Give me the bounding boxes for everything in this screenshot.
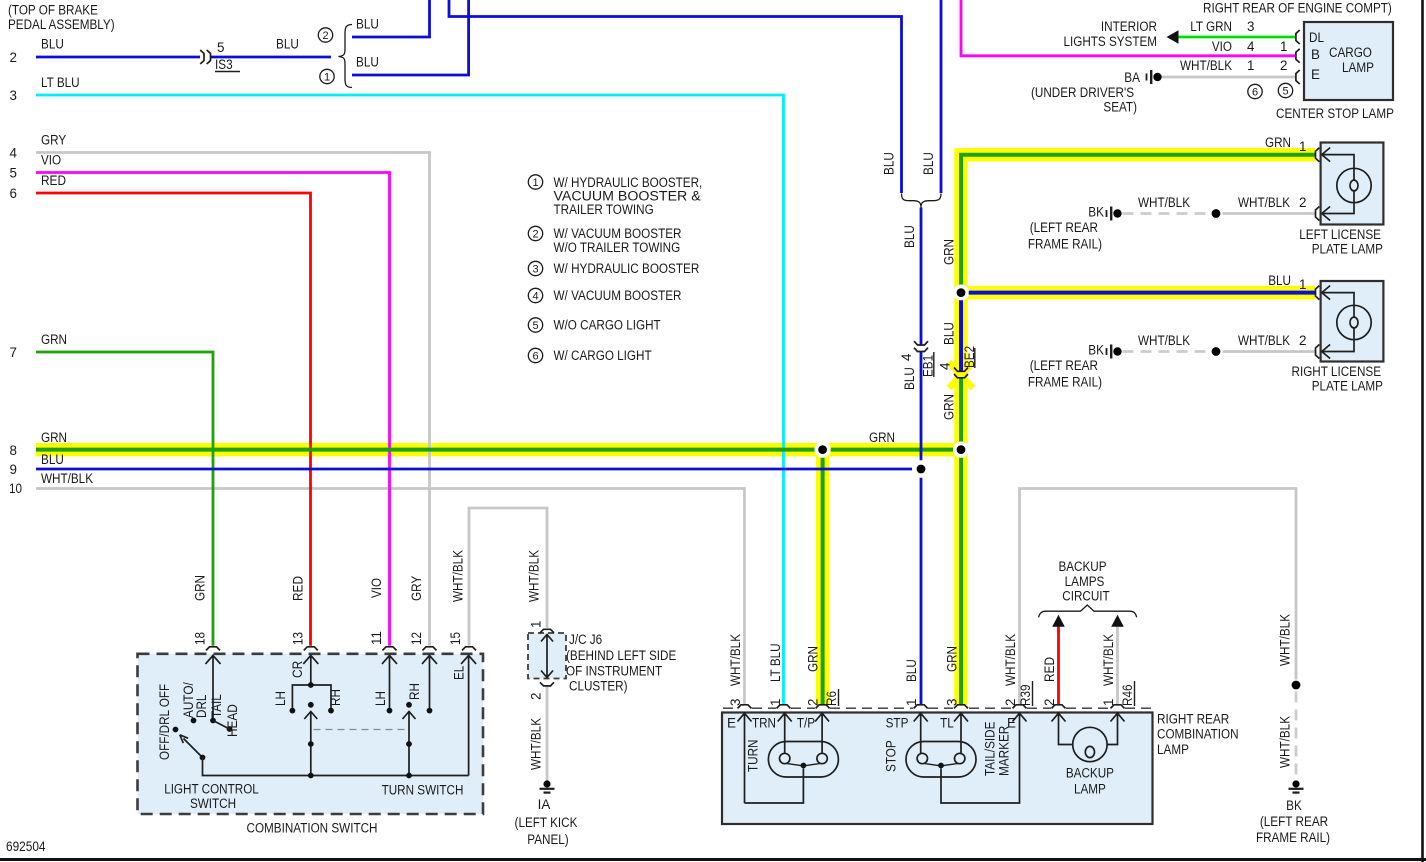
wire VIO vertical to cargo lamp B — [961, 0, 1296, 56]
svg-text:692504: 692504 — [6, 839, 46, 854]
svg-text:2: 2 — [1280, 58, 1287, 73]
note 6 — [528, 348, 651, 363]
svg-text:W/O TRAILER TOWING: W/O TRAILER TOWING — [554, 240, 681, 255]
svg-text:BLU: BLU — [356, 55, 379, 70]
pin cup left license 2 — [1316, 207, 1320, 221]
switch contact AUTO/DRL — [191, 718, 197, 724]
yellow highlight band line 8 GRN — [36, 443, 961, 457]
svg-text:WHT/BLK: WHT/BLK — [41, 471, 93, 486]
svg-text:EL: EL — [452, 666, 467, 680]
pin hump switch 15 — [462, 647, 476, 651]
switch contact OFF/DRL OFF — [173, 727, 179, 733]
switch bus node turn left — [308, 773, 314, 779]
svg-text:RIGHT LICENSE: RIGHT LICENSE — [1292, 364, 1382, 379]
svg-text:GRN: GRN — [41, 332, 67, 347]
svg-text:TAIL/SIDE: TAIL/SIDE — [983, 722, 998, 776]
svg-text:CLUSTER): CLUSTER) — [569, 679, 628, 694]
pin hump lamp backup 1 — [1111, 705, 1125, 709]
svg-text:SEAT): SEAT) — [1103, 100, 1137, 115]
brace split line2 — [339, 25, 353, 88]
svg-text:6: 6 — [1252, 87, 1258, 99]
switch arrow pin 15 — [461, 655, 476, 775]
svg-text:6: 6 — [10, 186, 17, 201]
switch lever turn left — [304, 712, 317, 776]
wire WHT/BLK net E2 to BK ground — [1020, 489, 1297, 705]
connector BE2 underline — [974, 348, 976, 368]
svg-text:3: 3 — [728, 699, 743, 706]
pin hump lamp E3 — [738, 705, 752, 709]
lamp arrow TRN — [778, 713, 792, 753]
pin hump lamp STP — [914, 705, 928, 709]
pin hump lamp E2 — [1013, 705, 1027, 709]
right license wire bulb to pin2 — [1322, 340, 1354, 352]
wire line 2 BLU IS3 to brace — [211, 56, 331, 59]
switch arrow pin 18 — [206, 655, 221, 718]
switch lever turn right — [403, 712, 416, 776]
svg-text:BLU: BLU — [942, 322, 957, 345]
pin hump lamp T/P — [816, 705, 830, 709]
right license bulb — [1337, 305, 1371, 339]
lamp arrow backup 2 — [1052, 713, 1073, 744]
svg-text:R39: R39 — [1018, 685, 1033, 707]
circled 2 at brace — [318, 28, 332, 42]
svg-text:VIO: VIO — [369, 578, 384, 598]
svg-text:PANEL): PANEL) — [527, 832, 568, 847]
right license arrow pin1 — [1322, 286, 1354, 340]
switch bus node turn right — [406, 773, 412, 779]
label R39 underline — [1032, 681, 1034, 706]
svg-text:OF INSTRUMENT: OF INSTRUMENT — [566, 664, 662, 679]
turn bulb stadium — [768, 742, 838, 778]
pin hump switch 18 — [206, 647, 220, 651]
connector IS3 cups — [200, 50, 210, 64]
svg-text:COMBINATION SWITCH: COMBINATION SWITCH — [247, 821, 378, 836]
svg-text:1: 1 — [1299, 277, 1306, 292]
wire RED backup lamp pin2 — [1057, 627, 1060, 705]
svg-text:1: 1 — [768, 699, 783, 706]
switch contact RH left — [328, 708, 334, 714]
svg-text:1: 1 — [1247, 58, 1254, 73]
svg-text:TRN: TRN — [752, 716, 776, 731]
svg-text:5: 5 — [1282, 86, 1288, 98]
right rear combination lamp box — [722, 713, 1153, 825]
svg-text:2: 2 — [1299, 195, 1306, 210]
right license plate lamp box — [1321, 281, 1384, 362]
pin cup right license 2 — [1316, 345, 1320, 359]
svg-text:LH: LH — [373, 691, 388, 706]
svg-text:STP: STP — [886, 716, 909, 731]
svg-text:2: 2 — [529, 693, 544, 700]
switch link TAIL-HEAD — [213, 721, 230, 730]
svg-text:BLU: BLU — [921, 152, 936, 175]
pin cup cargo DL — [1296, 30, 1300, 44]
backup bulb filament loop — [1085, 746, 1094, 757]
svg-text:BACKUP: BACKUP — [1066, 766, 1114, 781]
svg-text:GRN: GRN — [1265, 135, 1291, 150]
switch bracket CR — [292, 685, 331, 708]
svg-text:BLU: BLU — [41, 452, 64, 467]
svg-text:1: 1 — [324, 72, 330, 84]
svg-text:1: 1 — [532, 177, 538, 189]
wire GRN node to TL pin — [959, 458, 963, 705]
svg-text:LIGHTS SYSTEM: LIGHTS SYSTEM — [1064, 34, 1158, 49]
svg-text:2: 2 — [1003, 699, 1018, 706]
wire WHT/BLK backup lamp pin1 — [1116, 627, 1119, 705]
note 5 — [528, 318, 660, 333]
brace backup lamps circuit — [1039, 605, 1137, 617]
svg-text:DL: DL — [1309, 30, 1324, 45]
svg-text:LAMP: LAMP — [1157, 742, 1189, 757]
svg-text:IA: IA — [538, 797, 551, 812]
yellow X at connector BE2 — [949, 362, 973, 388]
yellow highlight band BLU horizontal to right license lamp — [961, 286, 1315, 300]
switch contact LH left — [290, 708, 296, 714]
svg-text:E: E — [1311, 67, 1320, 82]
wire line 4 GRY to pin 12 — [36, 153, 430, 646]
svg-text:1: 1 — [904, 699, 919, 706]
pin hump lamp TRN — [777, 705, 791, 709]
svg-text:GRN: GRN — [945, 646, 960, 672]
svg-text:3: 3 — [1247, 19, 1254, 34]
svg-text:R6: R6 — [824, 691, 839, 706]
junction node left license WHT/BLK — [1212, 209, 1221, 218]
turn bulb filaments — [787, 763, 821, 765]
svg-text:4: 4 — [899, 353, 914, 361]
white ring node line8/TL — [953, 441, 969, 457]
wire WHT/BLK dashed to BK ground right — [1295, 692, 1298, 779]
wire line 9 BLU — [36, 468, 912, 471]
combination switch box — [138, 654, 484, 814]
circled 6 cargo — [1248, 84, 1262, 98]
svg-text:6: 6 — [532, 351, 538, 363]
svg-text:STOP: STOP — [884, 740, 899, 772]
svg-text:WHT/BLK: WHT/BLK — [527, 550, 542, 602]
wire WHT/BLK left license pin2 dashed from BK — [1123, 212, 1209, 215]
left license plate lamp box — [1321, 143, 1384, 225]
wire WHT/BLK left license pin2 solid — [1223, 212, 1316, 215]
switch contact RH right — [427, 708, 433, 714]
wire BLU brace to EB1 — [920, 208, 923, 345]
svg-text:IS3: IS3 — [215, 57, 233, 72]
note 4 — [528, 288, 681, 303]
brace join blue pair — [902, 194, 942, 208]
wire BLU branch circled2 — [352, 0, 430, 37]
switch contact TAIL — [210, 718, 216, 724]
pin hump switch 12 — [423, 647, 437, 651]
left license arrow pin1 — [1322, 148, 1354, 203]
wire line 8 GRN highlighted — [36, 448, 953, 452]
lamp arrow E2 — [1013, 713, 1027, 721]
yellow highlight band top horizontal to left license lamp — [955, 148, 1316, 162]
svg-text:INTERIOR: INTERIOR — [1101, 19, 1157, 34]
svg-text:CENTER STOP LAMP: CENTER STOP LAMP — [1276, 106, 1394, 121]
svg-text:RH: RH — [328, 689, 343, 706]
pin hump lamp backup 2 — [1052, 705, 1066, 709]
stop bulb filament posts — [917, 753, 927, 763]
svg-text:T/P: T/P — [797, 716, 815, 731]
pin cup cargo E — [1296, 70, 1300, 84]
svg-text:WHT/BLK: WHT/BLK — [1238, 333, 1290, 348]
label R6 underline — [838, 689, 840, 706]
svg-text:RED: RED — [41, 173, 66, 188]
svg-text:8: 8 — [10, 443, 17, 458]
svg-text:BLU: BLU — [276, 37, 299, 52]
svg-text:3: 3 — [10, 88, 17, 103]
svg-text:E: E — [727, 716, 736, 731]
svg-text:BLU: BLU — [882, 152, 897, 175]
svg-text:5: 5 — [532, 320, 538, 332]
svg-text:RED: RED — [290, 576, 305, 601]
svg-text:CR: CR — [290, 661, 305, 678]
arrow interior lights system — [1167, 30, 1179, 44]
svg-text:CIRCUIT: CIRCUIT — [1062, 589, 1109, 604]
svg-text:RIGHT REAR: RIGHT REAR — [1157, 712, 1229, 727]
svg-text:3: 3 — [945, 699, 960, 706]
svg-text:GRN: GRN — [806, 646, 821, 672]
svg-text:WHT/BLK: WHT/BLK — [1138, 333, 1190, 348]
bottom page border — [0, 858, 1426, 861]
svg-text:2: 2 — [1299, 333, 1306, 348]
svg-text:COMBINATION: COMBINATION — [1157, 727, 1239, 742]
left license bulb — [1337, 168, 1371, 202]
connector IS3 underline — [215, 71, 240, 73]
switch arrow pin 11 — [382, 655, 397, 708]
right license arrow pin2 — [1322, 345, 1330, 359]
pin cup right license 1 — [1316, 286, 1320, 300]
wire BLU node to STP pin — [920, 478, 923, 705]
wire line 5 VIO to pin 11 — [36, 173, 390, 646]
ground BA under driver's seat — [1147, 70, 1162, 84]
connector BE2 cups — [954, 368, 968, 378]
yellow highlight band vertical T/P wire — [816, 445, 830, 705]
svg-text:LAMP: LAMP — [1074, 782, 1106, 797]
J/C J6 box — [528, 633, 566, 679]
svg-text:BA: BA — [1124, 70, 1140, 85]
svg-text:TURN SWITCH: TURN SWITCH — [382, 783, 464, 798]
svg-text:RED: RED — [1042, 657, 1057, 682]
left license bulb loop — [1350, 180, 1358, 191]
svg-text:DRL: DRL — [194, 695, 209, 718]
wire line 6 RED to pin 13 — [36, 193, 311, 646]
wire line 3 LT BLU to pin TRN — [36, 95, 784, 705]
svg-text:2: 2 — [532, 229, 538, 241]
svg-text:WHT/BLK: WHT/BLK — [1180, 58, 1232, 73]
cargo lamp box — [1304, 22, 1393, 100]
wire line 10 WHT/BLK to pin E3 — [36, 489, 745, 705]
svg-text:10: 10 — [9, 481, 22, 496]
svg-text:13: 13 — [290, 632, 305, 645]
pin cup cargo B — [1296, 49, 1300, 63]
wire BLU top to brace right — [940, 0, 943, 193]
wire BLU between node and BE2 — [959, 300, 963, 370]
arrow backup circuit WHT/BLK — [1111, 615, 1124, 627]
svg-text:VIO: VIO — [41, 153, 61, 168]
lamp wire E3 to turn bulb — [745, 769, 804, 804]
ground BK left rear frame rail (right rear) — [1289, 780, 1304, 792]
svg-text:(LEFT REAR: (LEFT REAR — [1030, 220, 1099, 235]
svg-text:3: 3 — [532, 264, 538, 276]
left license wire bulb to pin2 — [1322, 203, 1354, 214]
wire GRN net top corner to left license pin1 — [961, 155, 1315, 285]
wire BLU top to brace left — [449, 0, 902, 193]
svg-text:2: 2 — [806, 699, 821, 706]
turn bulb node — [801, 763, 807, 769]
svg-text:(LEFT REAR: (LEFT REAR — [1030, 358, 1099, 373]
svg-text:LEFT LICENSE: LEFT LICENSE — [1299, 227, 1381, 242]
white ring node line8/TP — [814, 441, 830, 457]
wire BLU EB1 to node — [920, 352, 923, 461]
wire BLU highlighted to right license pin1 — [969, 291, 1315, 295]
wire GRN vertical to T/P pin — [821, 458, 825, 705]
svg-text:BE2: BE2 — [962, 346, 977, 368]
svg-text:LH: LH — [273, 691, 288, 706]
svg-text:EB1: EB1 — [921, 355, 936, 377]
svg-text:MARKER: MARKER — [997, 725, 1012, 776]
switch wire lever to bus — [203, 758, 469, 776]
svg-text:FRAME RAIL): FRAME RAIL) — [1028, 237, 1102, 252]
svg-text:TAIL: TAIL — [209, 694, 224, 718]
switch linkage dashed — [314, 729, 408, 731]
svg-text:TL: TL — [940, 716, 954, 731]
svg-text:GRN: GRN — [193, 575, 208, 601]
svg-text:GRN: GRN — [41, 430, 67, 445]
svg-text:LT BLU: LT BLU — [768, 643, 783, 682]
svg-text:12: 12 — [409, 632, 424, 645]
svg-text:RIGHT REAR OF ENGINE COMPT): RIGHT REAR OF ENGINE COMPT) — [1203, 1, 1392, 16]
wire LT GRN cargo DL to interior lights — [1178, 36, 1296, 39]
note 1 — [528, 175, 702, 217]
junction node BK right rear — [1292, 681, 1301, 690]
svg-text:LAMPS: LAMPS — [1065, 574, 1105, 589]
svg-text:2: 2 — [10, 50, 17, 65]
right page border — [1421, 0, 1424, 862]
switch contact LH right — [387, 708, 393, 714]
svg-text:BLU: BLU — [902, 367, 917, 390]
svg-text:GRY: GRY — [41, 133, 66, 148]
svg-text:WHT/BLK: WHT/BLK — [451, 550, 466, 602]
svg-text:PLATE LAMP: PLATE LAMP — [1312, 379, 1383, 394]
svg-text:4: 4 — [1247, 39, 1255, 54]
junction node line8/TP — [818, 445, 827, 454]
connector EB1 cups — [914, 341, 928, 351]
svg-text:WHT/BLK: WHT/BLK — [1278, 716, 1293, 768]
switch arrow pin 13 — [303, 655, 318, 683]
svg-text:1: 1 — [1101, 699, 1116, 706]
wire WHT/BLK right license pin2 solid — [1223, 350, 1316, 353]
ground BK left rear frame rail (right license) — [1107, 345, 1122, 359]
lamp arrow backup 1 — [1107, 713, 1124, 744]
svg-text:CARGO: CARGO — [1329, 45, 1372, 60]
backup bulb circle — [1073, 727, 1107, 761]
lamp arrow STP — [914, 713, 928, 753]
svg-text:1: 1 — [1299, 139, 1306, 154]
svg-text:BK: BK — [1088, 205, 1104, 220]
wire line 2 BLU to IS3 — [36, 56, 200, 59]
stop bulb node — [938, 763, 944, 769]
switch arrow pin 12 — [422, 655, 437, 708]
wire BLU branch circled1 — [352, 0, 469, 75]
svg-text:(LEFT KICK: (LEFT KICK — [515, 815, 578, 830]
svg-text:WHT/BLK: WHT/BLK — [728, 634, 743, 686]
switch lever node turn right — [406, 741, 412, 747]
svg-text:(TOP OF BRAKE: (TOP OF BRAKE — [8, 3, 98, 18]
turn bulb filament posts — [780, 753, 790, 763]
svg-text:OFF/DRL OFF: OFF/DRL OFF — [157, 684, 172, 760]
white ring node line9/STP — [913, 461, 929, 477]
J6 internal arrows — [541, 635, 553, 678]
svg-text:TRAILER TOWING: TRAILER TOWING — [554, 202, 654, 217]
svg-text:LT GRN: LT GRN — [1190, 19, 1232, 34]
svg-text:J/C J6: J/C J6 — [569, 632, 602, 647]
lamp wire stop bulb to E2 — [941, 713, 1020, 803]
label R46 underline — [1134, 681, 1136, 706]
svg-text:(UNDER DRIVER'S: (UNDER DRIVER'S — [1031, 85, 1134, 100]
pin hump lamp TL — [954, 705, 968, 709]
pin cup J6 2 — [540, 682, 554, 686]
svg-text:LIGHT CONTROL: LIGHT CONTROL — [164, 782, 259, 797]
svg-text:LT BLU: LT BLU — [41, 75, 80, 90]
circled 5 cargo — [1278, 83, 1292, 97]
svg-text:SWITCH: SWITCH — [190, 796, 236, 811]
pin hump switch 13 — [304, 647, 318, 651]
svg-text:GRN: GRN — [869, 430, 895, 445]
stop bulb stadium — [906, 742, 976, 778]
svg-text:(BEHIND LEFT SIDE: (BEHIND LEFT SIDE — [566, 648, 676, 663]
svg-text:GRN: GRN — [942, 239, 957, 265]
note 2 — [528, 226, 681, 255]
pin hump J6 1 — [540, 629, 554, 633]
svg-text:4: 4 — [532, 291, 538, 303]
junction node line9/STP — [917, 465, 926, 474]
junction node BLU branch — [957, 288, 966, 297]
lamp arrow T/P — [815, 713, 829, 753]
svg-text:5: 5 — [10, 166, 17, 181]
connector EB1 underline — [933, 352, 935, 377]
switch lever light control — [180, 735, 203, 758]
pin hump switch 11 — [383, 647, 397, 651]
svg-text:(LEFT REAR: (LEFT REAR — [1260, 814, 1329, 829]
svg-text:18: 18 — [193, 632, 208, 645]
note 3 — [528, 261, 699, 276]
svg-text:BK: BK — [1088, 343, 1104, 358]
svg-text:2: 2 — [1042, 699, 1057, 706]
svg-text:BLU: BLU — [902, 225, 917, 248]
yellow highlight band green net vertical — [954, 149, 968, 705]
circled 1 at brace — [320, 69, 334, 83]
svg-text:W/O CARGO LIGHT: W/O CARGO LIGHT — [554, 318, 661, 333]
svg-text:WHT/BLK: WHT/BLK — [529, 718, 544, 770]
svg-text:WHT/BLK: WHT/BLK — [1238, 195, 1290, 210]
svg-text:9: 9 — [10, 462, 17, 477]
svg-text:BLU: BLU — [41, 37, 64, 52]
svg-text:WHT/BLK: WHT/BLK — [1278, 614, 1293, 666]
switch contact CR center — [308, 702, 314, 708]
svg-text:7: 7 — [10, 345, 17, 360]
svg-text:BLU: BLU — [1268, 273, 1291, 288]
svg-text:VIO: VIO — [1212, 39, 1232, 54]
switch pivot light control — [200, 755, 206, 761]
svg-text:11: 11 — [369, 631, 384, 645]
stop bulb filaments — [924, 763, 958, 765]
svg-text:TURN: TURN — [746, 740, 761, 773]
svg-text:LAMP: LAMP — [1342, 60, 1374, 75]
ground IA left kick panel — [540, 780, 555, 792]
svg-text:BLU: BLU — [356, 17, 379, 32]
connector dashed line combination lamp — [723, 707, 1151, 709]
junction node right license WHT/BLK — [1212, 347, 1221, 356]
wire GRN below BE2 to node — [959, 378, 963, 441]
svg-text:1: 1 — [1280, 39, 1287, 54]
